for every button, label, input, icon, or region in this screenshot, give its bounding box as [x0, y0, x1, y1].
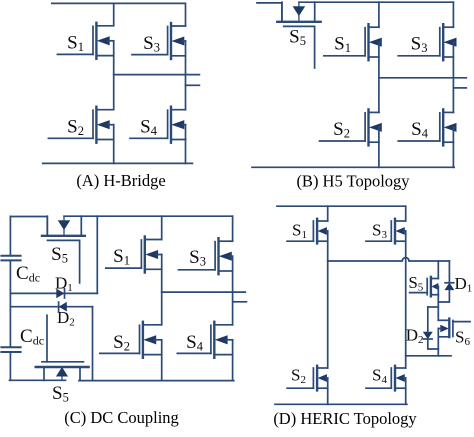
- transistor S6: [439, 319, 471, 337]
- svg-text:S3: S3: [189, 247, 206, 269]
- transistor S5: [277, 2, 320, 26]
- svg-text:S2: S2: [113, 332, 130, 354]
- wire: [452, 127, 454, 167]
- svg-text:Cdc: Cdc: [16, 263, 40, 285]
- label Cdc: [16, 263, 40, 285]
- wire: [113, 41, 115, 110]
- diode D1: [445, 283, 454, 290]
- wire: [327, 378, 329, 404]
- svg-text:Cdc: Cdc: [20, 326, 44, 348]
- wire: [46, 315, 48, 362]
- label S4: [186, 332, 204, 354]
- label Cdc: [20, 326, 44, 348]
- svg-text:S3: S3: [411, 33, 428, 55]
- label S2: [67, 116, 84, 138]
- svg-text:D1: D1: [55, 273, 73, 294]
- transistor S2: [320, 109, 382, 145]
- svg-text:S4: S4: [186, 332, 204, 354]
- svg-text:(D) HERIC Topology: (D) HERIC Topology: [273, 409, 417, 428]
- wire: [406, 355, 451, 357]
- wire: [437, 261, 439, 279]
- svg-text:S4: S4: [411, 119, 429, 141]
- wire: [327, 206, 329, 221]
- wire: [113, 3, 115, 25]
- transistor S2: [287, 366, 328, 391]
- svg-text:S5: S5: [289, 26, 306, 48]
- svg-text:S1: S1: [67, 32, 84, 54]
- wire: [257, 3, 282, 21]
- label S5: [51, 244, 68, 266]
- wire: [161, 255, 163, 325]
- wire: [10, 306, 92, 308]
- wire: [314, 26, 316, 68]
- label S1: [67, 32, 84, 54]
- caption (C) DC Coupling: [64, 408, 179, 427]
- wire: [9, 352, 11, 380]
- wire: [232, 256, 234, 325]
- label S3: [189, 247, 206, 269]
- label S2: [113, 332, 130, 354]
- wire: [10, 217, 47, 236]
- wire: [185, 125, 187, 164]
- transistor S1: [287, 219, 328, 244]
- wire: [9, 261, 11, 347]
- wire: [232, 340, 234, 381]
- wire: [96, 216, 98, 293]
- svg-text:S3: S3: [143, 33, 160, 55]
- transistor S1: [324, 24, 382, 60]
- wire: [232, 216, 234, 241]
- svg-text:S1: S1: [334, 33, 351, 55]
- transistor S5: [36, 362, 89, 381]
- wire: [161, 340, 163, 381]
- wire: [9, 217, 11, 256]
- wire: [161, 216, 163, 239]
- wire: [10, 292, 97, 294]
- svg-text:S2: S2: [67, 116, 84, 138]
- wire: [378, 127, 380, 167]
- wire: [299, 1, 453, 3]
- diode D2: [59, 302, 67, 311]
- label S2: [333, 119, 350, 141]
- wire: [185, 3, 187, 25]
- label S4: [372, 365, 387, 386]
- wire: [252, 166, 454, 168]
- svg-text:S3: S3: [372, 220, 387, 241]
- capacitor Cdc: [1, 347, 20, 352]
- transistor S3: [366, 219, 406, 244]
- label S2: [291, 365, 306, 386]
- wire: [113, 125, 115, 164]
- transistor S5: [410, 277, 439, 296]
- wire: [114, 74, 200, 76]
- label S3: [143, 33, 160, 55]
- label S1: [334, 33, 351, 55]
- wire: [275, 403, 407, 405]
- transistor S2: [48, 107, 113, 143]
- wire: [378, 42, 380, 112]
- transistor S2: [100, 322, 162, 358]
- svg-text:S2: S2: [333, 119, 350, 141]
- wire: [43, 162, 193, 164]
- transistor S4: [366, 366, 406, 391]
- transistor S5: [42, 216, 85, 240]
- wire: [233, 301, 246, 303]
- svg-text:D2: D2: [57, 308, 75, 329]
- svg-text:(C) DC Coupling: (C) DC Coupling: [64, 408, 179, 427]
- label D2: [57, 308, 75, 329]
- svg-text:(B) H5 Topology: (B) H5 Topology: [296, 172, 410, 191]
- label S3: [372, 220, 387, 241]
- wire: [379, 77, 466, 79]
- caption (D) HERIC Topology: [273, 409, 417, 428]
- svg-text:S6: S6: [455, 327, 470, 348]
- svg-text:S2: S2: [291, 365, 306, 386]
- label S4: [411, 119, 429, 141]
- wire: [162, 291, 246, 293]
- label S4: [140, 116, 158, 138]
- wire: [186, 84, 200, 86]
- wire: [277, 205, 406, 207]
- transistor S3: [132, 23, 186, 59]
- svg-text:(A) H-Bridge: (A) H-Bridge: [76, 171, 165, 190]
- diode D2 leads: [428, 307, 439, 349]
- svg-text:D1: D1: [455, 274, 473, 295]
- wire: [437, 287, 439, 321]
- wire: [79, 240, 81, 283]
- svg-text:S5: S5: [52, 383, 69, 405]
- transistor S1: [106, 237, 162, 273]
- svg-text:S5: S5: [51, 244, 68, 266]
- wire: [64, 215, 233, 217]
- label S1: [292, 220, 307, 241]
- svg-text:S5: S5: [408, 273, 423, 294]
- wire: [405, 231, 407, 368]
- transistor S3: [179, 238, 233, 274]
- wire: [10, 379, 66, 381]
- label S5: [289, 26, 306, 48]
- svg-text:S1: S1: [292, 220, 307, 241]
- label D1: [55, 273, 73, 294]
- wire: [92, 307, 94, 381]
- wire: [79, 380, 234, 382]
- label S6: [455, 327, 470, 348]
- diode D1: [57, 289, 65, 298]
- svg-text:S4: S4: [372, 365, 387, 386]
- transistor S1: [57, 23, 113, 59]
- wire: [452, 42, 454, 112]
- wire: [405, 378, 407, 404]
- label S1: [113, 246, 130, 268]
- transistor S4: [398, 109, 456, 145]
- svg-text:S4: S4: [140, 116, 158, 138]
- label D1: [455, 274, 473, 295]
- capacitor Cdc: [1, 256, 20, 261]
- label S5: [52, 383, 69, 405]
- label S5: [408, 273, 423, 294]
- svg-text:S1: S1: [113, 246, 130, 268]
- diode D1 leads: [438, 261, 449, 302]
- wire: [52, 2, 185, 4]
- wire: [405, 206, 407, 221]
- wire: [378, 2, 380, 27]
- wire: [327, 231, 329, 368]
- wire: [185, 41, 187, 110]
- transistor S4: [130, 107, 186, 143]
- wire: [453, 87, 466, 89]
- transistor S4: [177, 322, 232, 358]
- caption (B) H5 Topology: [296, 172, 410, 191]
- caption (A) H-Bridge: [76, 171, 165, 190]
- wire: [452, 2, 454, 27]
- wire: [437, 329, 439, 356]
- node A midline with crossover hop: [328, 258, 450, 261]
- wire: [428, 306, 439, 308]
- label D2: [406, 325, 424, 346]
- label S3: [411, 33, 428, 55]
- diode D2: [423, 332, 432, 339]
- transistor S3: [398, 24, 456, 60]
- svg-text:D2: D2: [406, 325, 424, 346]
